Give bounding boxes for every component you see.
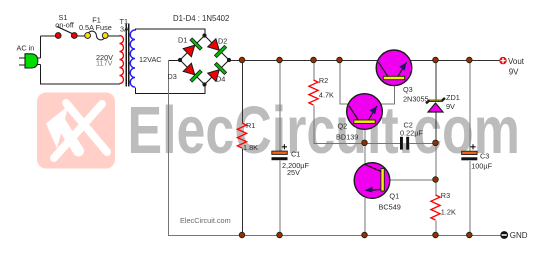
svg-text:C3: C3: [480, 152, 489, 161]
svg-text:2N3055: 2N3055: [403, 94, 429, 103]
svg-text:ElecCircuit.com: ElecCircuit.com: [128, 93, 520, 168]
svg-text:BC549: BC549: [379, 202, 401, 211]
svg-text:D4: D4: [216, 75, 225, 84]
svg-text:C1: C1: [291, 150, 300, 159]
svg-text:Q2: Q2: [338, 122, 348, 131]
svg-text:D2: D2: [218, 37, 227, 46]
svg-text:12VAC: 12VAC: [139, 55, 162, 64]
svg-text:GND: GND: [510, 231, 528, 240]
svg-text:AC in: AC in: [16, 44, 34, 53]
svg-text:9V: 9V: [509, 68, 519, 77]
svg-text:R3: R3: [441, 191, 450, 200]
svg-text:117V: 117V: [96, 59, 113, 68]
svg-text:BD139: BD139: [336, 133, 358, 142]
svg-text:ZD1: ZD1: [446, 93, 460, 102]
svg-text:3A: 3A: [120, 25, 129, 34]
svg-text:D1-D4 : 1N5402: D1-D4 : 1N5402: [173, 14, 229, 23]
svg-text:0.22µF: 0.22µF: [400, 128, 423, 137]
svg-text:ElecCircuit.com: ElecCircuit.com: [180, 216, 231, 225]
svg-text:D1: D1: [178, 36, 187, 45]
svg-text:1.2K: 1.2K: [441, 208, 456, 217]
svg-text:R1: R1: [246, 121, 255, 130]
svg-text:D3: D3: [168, 72, 177, 81]
svg-text:Q3: Q3: [403, 85, 413, 94]
svg-text:Vout: Vout: [508, 57, 525, 66]
svg-text:0.5A Fuse: 0.5A Fuse: [79, 23, 112, 32]
svg-text:9V: 9V: [446, 102, 455, 111]
svg-text:R2: R2: [319, 76, 328, 85]
svg-text:4.7K: 4.7K: [319, 91, 334, 100]
svg-text:25V: 25V: [287, 168, 300, 177]
svg-text:on-off: on-off: [55, 21, 74, 30]
svg-text:100µF: 100µF: [471, 161, 492, 170]
svg-text:1.8K: 1.8K: [243, 143, 258, 152]
svg-text:Q1: Q1: [389, 192, 399, 201]
